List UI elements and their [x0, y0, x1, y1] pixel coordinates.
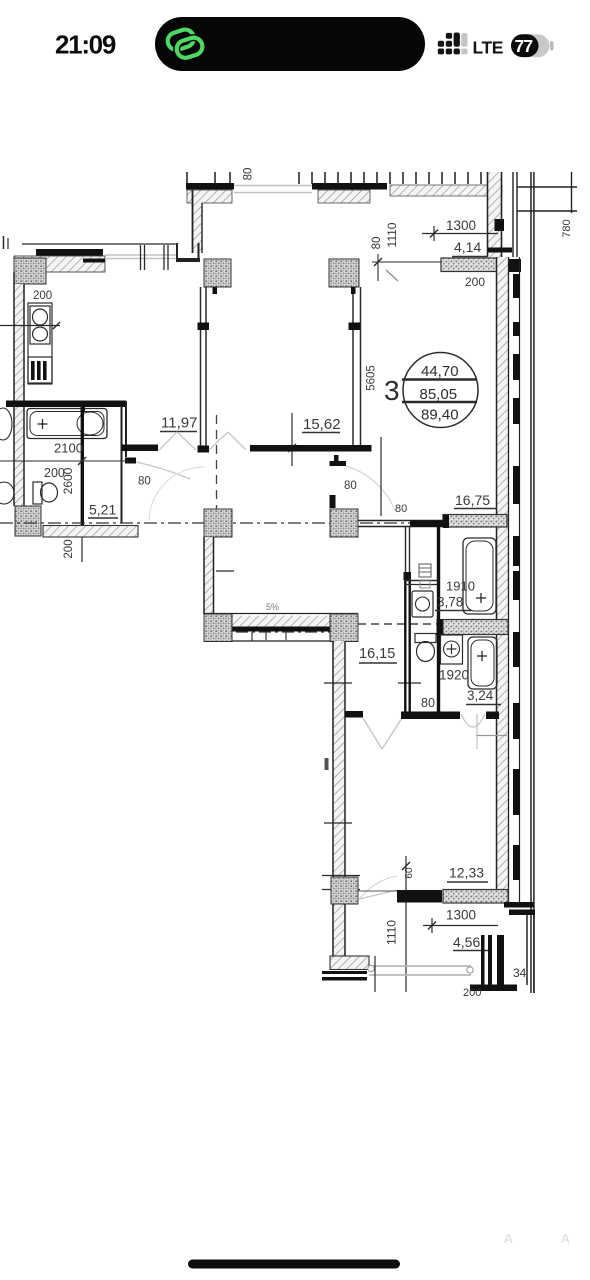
- svg-text:80: 80: [421, 696, 435, 710]
- svg-text:3,78: 3,78: [437, 595, 463, 610]
- svg-text:3,24: 3,24: [467, 688, 494, 703]
- svg-text:780: 780: [561, 219, 573, 237]
- svg-text:200: 200: [33, 290, 52, 302]
- svg-text:1300: 1300: [446, 218, 476, 233]
- svg-text:3: 3: [384, 375, 400, 406]
- svg-text:1300: 1300: [446, 908, 476, 923]
- svg-text:5%: 5%: [266, 602, 279, 612]
- svg-text:200: 200: [463, 987, 481, 999]
- svg-text:80: 80: [371, 237, 383, 250]
- svg-text:LTE: LTE: [473, 38, 504, 58]
- svg-text:A: A: [561, 1231, 570, 1246]
- svg-text:5,21: 5,21: [89, 502, 116, 518]
- svg-text:1110: 1110: [385, 222, 399, 247]
- svg-text:80: 80: [243, 168, 255, 181]
- svg-text:16,15: 16,15: [359, 646, 395, 662]
- svg-text:80: 80: [138, 476, 151, 488]
- svg-text:A: A: [504, 1231, 513, 1246]
- svg-text:89,40: 89,40: [421, 407, 459, 424]
- svg-text:2600: 2600: [61, 467, 75, 494]
- svg-text:77: 77: [515, 36, 533, 56]
- svg-text:12,33: 12,33: [449, 865, 484, 881]
- svg-text:1110: 1110: [385, 920, 399, 945]
- svg-text:4,14: 4,14: [454, 239, 481, 255]
- svg-text:80: 80: [344, 480, 357, 492]
- svg-text:16,75: 16,75: [455, 492, 490, 508]
- svg-text:15,62: 15,62: [303, 416, 341, 433]
- svg-text:1910: 1910: [446, 579, 475, 594]
- svg-text:44,70: 44,70: [421, 363, 459, 380]
- svg-text:21:09: 21:09: [55, 30, 116, 60]
- svg-text:200: 200: [63, 539, 75, 558]
- svg-text:2100: 2100: [54, 441, 83, 456]
- svg-text:1920: 1920: [439, 668, 469, 683]
- svg-text:5605: 5605: [366, 365, 378, 391]
- svg-text:4,56: 4,56: [453, 934, 480, 950]
- svg-text:80: 80: [395, 503, 407, 515]
- svg-text:11,97: 11,97: [161, 415, 197, 432]
- svg-text:200: 200: [465, 275, 485, 289]
- svg-text:34: 34: [513, 966, 527, 980]
- svg-text:85,05: 85,05: [420, 386, 458, 403]
